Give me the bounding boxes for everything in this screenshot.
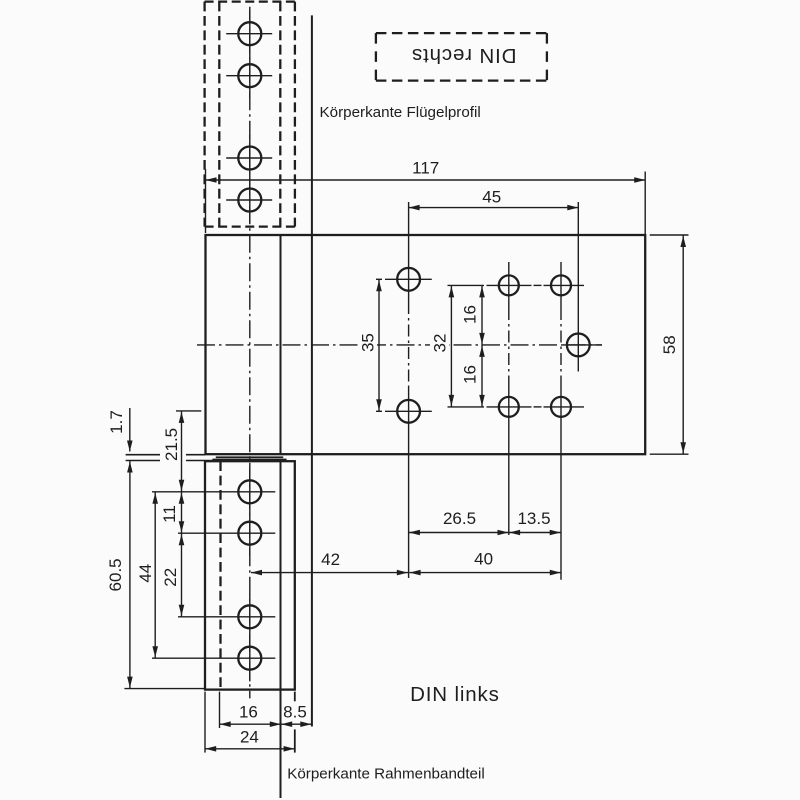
dim 24 ext dashes right (294, 692, 296, 702)
svg-text:40: 40 (474, 550, 493, 569)
dim 1.7 tick lower (126, 460, 160, 462)
left hole column vertical dash-dot (408, 302, 410, 388)
center-right hole horizontal crosshair (563, 344, 602, 346)
svg-text:16: 16 (239, 703, 258, 722)
Koerperkante Rahmenbandteil body edge line (280, 690, 282, 798)
svg-text:26.5: 26.5 (443, 509, 476, 528)
left top hole crosshair (385, 278, 432, 280)
svg-text:DIN rechts: DIN rechts (411, 44, 516, 67)
plate hole C2 (right column bottom) (551, 397, 571, 417)
dim 40 line (409, 572, 561, 574)
dim 1.7 upper pointer line (129, 408, 131, 452)
horizontal centerline of plate (197, 344, 602, 346)
dim 58 extension tick top (650, 234, 689, 236)
centerline solid crosshair segment (frame strip holes 3-4) (249, 594, 251, 681)
svg-text:8.5: 8.5 (283, 703, 307, 722)
ghost strip hole G2 crosshair (226, 75, 272, 77)
dim 13.5 line (509, 532, 561, 534)
dim 35 text white backing (358, 328, 377, 357)
frame strip hidden dashed line (219, 461, 221, 689)
dim 45 line (409, 207, 579, 209)
ghost flap strip inner-right dashed line (279, 2, 281, 227)
svg-text:1.7: 1.7 (107, 410, 126, 434)
right hole column vertical lower solid (560, 384, 562, 580)
dim 11 line (181, 492, 183, 533)
centerline solid crosshair segment (ghost holes 1-2) (249, 11, 251, 99)
dim 42 line (251, 572, 408, 574)
left bottom hole crosshair (385, 410, 432, 412)
dim 21.5 line (181, 411, 183, 492)
middle hole column vertical upper solid (508, 262, 510, 308)
ghost strip hole G3 (238, 147, 261, 170)
collar lower flange (212, 459, 286, 461)
svg-text:Körperkante Flügelprofil: Körperkante Flügelprofil (320, 104, 481, 121)
dim 16 lower line (481, 345, 483, 407)
svg-text:32: 32 (431, 334, 450, 353)
middle hole column vertical dash-dot (508, 308, 510, 384)
left hole column vertical line lower solid (408, 388, 410, 578)
center-right hole vertical line (577, 202, 579, 372)
dim 44 line (154, 492, 156, 658)
dim 32 extension tick bottom (448, 406, 485, 408)
plate hole A1 (left column top) (397, 268, 420, 291)
Koerperkante Fluegelprofil body edge line (311, 15, 313, 726)
frame strip fold edge line (280, 461, 282, 689)
svg-text:DIN links: DIN links (410, 683, 500, 706)
dim 22 line (181, 533, 183, 617)
svg-text:13.5: 13.5 (517, 509, 550, 528)
dim 32 text white backing (430, 329, 449, 358)
dim 21.5 extension tick (176, 410, 201, 412)
dim 24 line (205, 748, 295, 750)
svg-text:16: 16 (461, 305, 480, 324)
svg-text:44: 44 (136, 564, 155, 583)
svg-text:42: 42 (321, 550, 340, 569)
plate hole A2 (left column bottom) (397, 400, 420, 423)
dim 58 extension tick bottom (650, 453, 689, 455)
collar upper ring (216, 456, 283, 458)
frame strip hole F4 (238, 647, 261, 670)
dim 1.7 tick upper (126, 454, 160, 456)
plate hole C1 (right column top) (551, 275, 571, 295)
dim 117 line (206, 179, 646, 181)
middle hole column vertical lower solid (508, 384, 510, 535)
dim 117 extension line right (644, 172, 646, 236)
right hole column vertical dash-dot (560, 308, 562, 384)
ghost strip hole G3 crosshair (226, 157, 272, 159)
DIN rechts dashed box top edge (376, 32, 547, 34)
svg-text:16: 16 (461, 365, 480, 384)
dim 8.5 line (281, 723, 312, 725)
bottom hole row crosshair (487, 406, 532, 408)
vertical centerline (screw axis) (249, 7, 251, 699)
ghost strip hole G1 (238, 22, 261, 45)
frame strip hole F1 (238, 480, 261, 503)
main plate outline (206, 235, 646, 454)
dim 60.5 line (129, 461, 131, 689)
ghost flap strip inner-left dashed line (218, 2, 220, 227)
plate hole D (center right) (567, 334, 590, 357)
dim 16 upper line (481, 285, 483, 345)
svg-text:24: 24 (240, 727, 259, 746)
dim 60.5 extension line bottom (124, 688, 204, 690)
svg-text:22: 22 (161, 568, 180, 587)
plate hole B1 (middle column top) (499, 275, 519, 295)
frame strip hole F1 crosshair (152, 491, 275, 493)
dim 16 bottom ext line left (219, 692, 221, 728)
main plate fold edge line (280, 235, 282, 454)
dim 32 line (450, 285, 452, 407)
svg-text:11: 11 (160, 505, 179, 523)
svg-text:21.5: 21.5 (162, 428, 181, 461)
ghost strip hole G4 (238, 189, 261, 212)
svg-text:45: 45 (482, 188, 501, 207)
frame strip hole F2 (238, 522, 261, 545)
dim 16 bottom line (220, 723, 282, 725)
centerline solid crosshair segment (ghost holes 3-4) (249, 135, 251, 223)
frame strip hole F3 crosshair (178, 616, 275, 618)
frame strip hole F3 (238, 605, 261, 628)
top hole row crosshair (487, 284, 532, 286)
svg-text:Körperkante Rahmenbandteil: Körperkante Rahmenbandteil (287, 766, 485, 783)
ghost flap strip bottom dashed edge (205, 225, 295, 227)
dim 32 extension tick top (448, 284, 485, 286)
dim 26.5 line (409, 532, 509, 534)
frame strip outline (205, 461, 295, 689)
ghost strip hole G2 (238, 64, 261, 87)
dim 58 line (682, 235, 684, 454)
dim 24 ext line left (204, 692, 206, 753)
dim 35 line (378, 279, 380, 411)
dim 117 extension line left (205, 169, 207, 233)
plate hole B2 (middle column bottom) (499, 397, 519, 417)
svg-text:58: 58 (660, 335, 679, 354)
left hole column vertical line upper solid (408, 202, 410, 302)
frame strip hole F4 crosshair (152, 657, 275, 659)
DIN rechts dashed box right edge (546, 33, 548, 81)
svg-text:60.5: 60.5 (106, 558, 125, 591)
right hole column vertical upper solid (560, 262, 562, 308)
DIN rechts dashed box bottom edge (376, 79, 547, 81)
svg-text:117: 117 (412, 159, 439, 178)
ghost strip hole G4 crosshair (226, 199, 272, 201)
DIN rechts dashed box left edge (375, 33, 377, 81)
ghost flap strip (mirrored DIN-rechts position) left dashed edge (203, 2, 205, 227)
ghost strip hole G1 crosshair (226, 33, 272, 35)
ghost flap strip right dashed edge (294, 2, 296, 227)
centerline solid crosshair segment (frame strip holes 1-2) (249, 468, 251, 556)
ghost flap strip top dashed edge (205, 0, 295, 2)
frame strip hole F2 crosshair (178, 532, 275, 534)
svg-text:35: 35 (359, 333, 378, 352)
